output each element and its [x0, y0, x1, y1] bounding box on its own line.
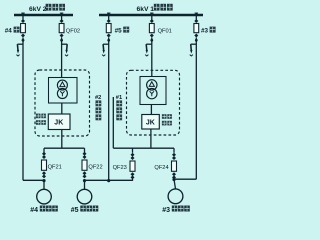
- junction node feeder #3: [195, 39, 198, 42]
- drawout contact upper feeder #5: [107, 19, 111, 23]
- label QF02: [66, 28, 80, 34]
- transformer T2 primary (delta): [57, 80, 67, 90]
- wire: QF23 down to tie bar: [132, 178, 134, 181]
- wire: feeder #5 to junction: [108, 38, 110, 45]
- label 6kV 2段母线: [29, 4, 65, 13]
- drawout contact upper breaker QF01: [150, 19, 154, 23]
- wire: #5 bypass vertical: [108, 45, 110, 181]
- VFD #2 dashed enclosure: [35, 70, 90, 136]
- arrester/earth switch #4 feeder: [16, 44, 23, 56]
- drawout contact upper QF23: [131, 153, 135, 160]
- drawout contact lower QF24: [172, 172, 176, 179]
- breaker box feeder #4: [21, 24, 26, 33]
- svg-text:#4: #4: [5, 27, 13, 34]
- arrester/earth switch QF02: [62, 44, 69, 56]
- label #5给水泵: [71, 206, 99, 214]
- transformer T1 enclosure: [140, 77, 166, 105]
- wire: split riser to QF22: [84, 148, 86, 153]
- svg-text:#3: #3: [162, 207, 170, 214]
- svg-text:#2: #2: [95, 95, 101, 101]
- wire: breaker QF02 to junction: [61, 38, 63, 45]
- svg-text:QF21: QF21: [48, 164, 62, 170]
- drawout contact upper feeder #3: [194, 19, 198, 23]
- arrester/earth switch QF01: [145, 44, 152, 56]
- label QF21: [48, 164, 62, 170]
- label QF24: [154, 165, 168, 171]
- wire: breaker QF01 drop from bus: [151, 13, 153, 20]
- svg-text:QF01: QF01: [158, 28, 172, 34]
- svg-text:QF24: QF24: [154, 165, 168, 171]
- wire: bypass #4 horizontal: [23, 179, 44, 181]
- arrester/earth switch #3 feeder: [190, 44, 197, 56]
- wire: breaker QF02 drop from bus: [61, 13, 63, 20]
- contactor box QF23: [130, 161, 135, 171]
- wire: split left stub riser: [112, 97, 114, 148]
- drawout contact upper QF24: [172, 153, 176, 160]
- wire: split riser to QF24: [173, 148, 175, 153]
- svg-text:#1: #1: [116, 95, 122, 101]
- wire: feeder #4 drop from bus: [22, 13, 24, 20]
- wire: tie bar to QF23: [85, 179, 133, 181]
- junction node breaker QF02: [60, 39, 63, 42]
- arrester/earth switch #5 feeder: [102, 44, 109, 56]
- drawout contact upper QF22: [83, 152, 87, 159]
- junction node breaker QF01: [150, 39, 153, 42]
- transformer T1 primary (delta): [147, 80, 157, 90]
- junction node feeder #5: [107, 39, 110, 42]
- motor M4 #4 feedwater pump: [37, 189, 52, 204]
- breaker box breaker QF01: [149, 24, 154, 33]
- drawout contact lower QF21: [42, 171, 46, 178]
- label #4给: [5, 27, 20, 35]
- junction node motor5: [83, 179, 86, 182]
- wire: to motor M4: [43, 180, 45, 189]
- motor M3 #3 feedwater pump: [168, 189, 183, 204]
- wire: T2 to JK2: [61, 103, 63, 114]
- wire: QF02 down into VFD2: [61, 45, 63, 79]
- junction node bypass5: [107, 179, 110, 182]
- drawout contact lower QF23: [131, 172, 135, 179]
- svg-text:#3: #3: [201, 27, 209, 34]
- breaker box breaker QF02: [59, 24, 64, 33]
- breaker box feeder #5: [106, 24, 111, 33]
- busbar 6kV section 1: [99, 14, 203, 17]
- wire: feeder #3 drop from bus: [195, 13, 197, 20]
- label QF23: [113, 165, 127, 171]
- wire: feeder #4 to junction: [22, 38, 24, 45]
- drawout contact lower feeder #4: [21, 34, 25, 38]
- svg-text:QF02: QF02: [66, 28, 80, 34]
- contactor box QF22: [82, 160, 87, 170]
- svg-text:6kV 2: 6kV 2: [29, 6, 47, 13]
- wire: VFD2 output split bar: [44, 147, 85, 149]
- label #3给: [201, 27, 216, 35]
- breaker box feeder #3: [194, 24, 199, 33]
- motor M5 #5 feedwater pump: [77, 189, 92, 204]
- drawout contact upper QF21: [42, 152, 46, 159]
- drawout contact lower breaker QF02: [60, 34, 64, 38]
- svg-text:JK: JK: [54, 120, 63, 127]
- wire: to motor M3: [174, 179, 176, 189]
- drawout contact lower feeder #3: [194, 34, 198, 38]
- junction node motor3: [172, 178, 175, 181]
- label #5给: [115, 27, 130, 35]
- junction node feeder #4: [22, 39, 25, 42]
- svg-text:#5: #5: [115, 27, 123, 34]
- drawout contact upper breaker QF02: [60, 19, 64, 23]
- busbar 6kV section 2: [14, 14, 73, 17]
- drawout contact lower feeder #5: [107, 34, 111, 38]
- wire: to motor M5: [84, 180, 86, 189]
- wire: split riser to QF21: [43, 148, 45, 153]
- drawout contact lower breaker QF01: [150, 34, 154, 38]
- wire: feeder #3 to junction: [195, 38, 197, 45]
- svg-text:QF22: QF22: [88, 164, 102, 170]
- label 功率单元 left of JK2: [36, 114, 46, 125]
- power unit JK2: [48, 114, 70, 130]
- svg-text:#5: #5: [71, 207, 79, 214]
- label #3给水泵: [162, 206, 190, 214]
- wire: JK2 output: [61, 130, 63, 149]
- wire: #3 bypass vertical: [195, 45, 197, 180]
- svg-text:QF23: QF23: [113, 165, 127, 171]
- transformer T2 enclosure: [49, 78, 78, 104]
- wire: T1 to JK1: [150, 105, 152, 115]
- wire: VFD1 output split bar: [113, 147, 174, 149]
- wire: feeder #5 drop from bus: [108, 13, 110, 20]
- junction node motor4: [42, 179, 45, 182]
- label 功率单元 right of JK1: [162, 114, 172, 125]
- transformer T1 secondary (wye): [147, 88, 157, 98]
- power unit JK1: [142, 115, 160, 130]
- VFD #1 dashed enclosure: [127, 70, 180, 135]
- contactor box QF24: [172, 161, 177, 171]
- transformer T2 secondary (wye): [57, 89, 67, 99]
- label #1变频器 vertical: [116, 95, 122, 121]
- wire: breaker QF01 to junction: [151, 38, 153, 45]
- drawout contact lower QF22: [83, 171, 87, 178]
- contactor box QF21: [42, 160, 47, 170]
- label QF01: [158, 28, 172, 34]
- wire: JK1 output: [150, 129, 152, 148]
- label #4给水泵: [30, 206, 58, 214]
- wire: QF01 down into VFD1: [151, 45, 153, 78]
- wire: split riser to QF23: [132, 148, 134, 153]
- label QF22: [88, 164, 102, 170]
- wire: bypass #3 horizontal: [174, 178, 196, 180]
- svg-text:JK: JK: [146, 120, 155, 127]
- label #2变频器 vertical: [95, 95, 101, 121]
- svg-text:6kV 1: 6kV 1: [137, 6, 155, 13]
- wire: #4 bypass vertical: [22, 45, 24, 181]
- label 6kV 1段母线: [137, 4, 173, 13]
- drawout contact upper feeder #4: [21, 19, 25, 23]
- svg-text:#4: #4: [30, 207, 38, 214]
